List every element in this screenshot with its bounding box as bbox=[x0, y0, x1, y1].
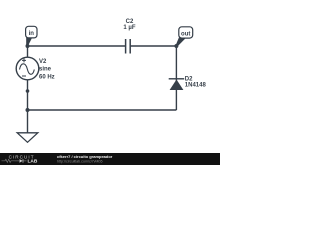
svg-text:60 Hz: 60 Hz bbox=[39, 74, 55, 80]
svg-text:1 µF: 1 µF bbox=[123, 25, 135, 31]
svg-text:out: out bbox=[181, 31, 190, 37]
wire ground stub bbox=[27, 110, 29, 133]
node V2 bottom terminal dot bbox=[26, 89, 30, 93]
label sine bbox=[39, 67, 52, 73]
label C2 bbox=[126, 19, 134, 25]
node ground junction dot bbox=[26, 108, 30, 112]
label D2 bbox=[185, 77, 193, 83]
port flag in bbox=[26, 26, 37, 46]
label 1 uF bbox=[123, 25, 135, 31]
ground bbox=[17, 133, 38, 143]
capacitor C2 bbox=[126, 39, 131, 54]
label 1N4148 bbox=[185, 83, 207, 89]
svg-text:in: in bbox=[29, 31, 35, 37]
wire left rail: node in down to V2 top terminal bbox=[27, 46, 29, 58]
svg-text:LAB: LAB bbox=[28, 159, 38, 165]
svg-text:V2: V2 bbox=[39, 59, 47, 65]
svg-text:sine: sine bbox=[39, 67, 52, 73]
watermark text line 1 bbox=[57, 154, 113, 159]
wire bottom: left rail to right rail bbox=[28, 109, 177, 111]
svg-text:1N4148: 1N4148 bbox=[185, 83, 207, 89]
wire top: node in to C2 left plate bbox=[28, 45, 126, 47]
node out junction dot bbox=[174, 44, 178, 48]
voltage source V2 (sine) bbox=[16, 57, 39, 80]
label 60 Hz bbox=[39, 74, 55, 80]
svg-text:cfkerr7 / circuito grampeador: cfkerr7 / circuito grampeador bbox=[57, 154, 113, 159]
wire right rail: node out down through D2 to bottom wire bbox=[175, 46, 177, 110]
label V2 bbox=[39, 59, 47, 65]
watermark logo CIRCUIT bbox=[2, 154, 38, 164]
watermark bar bbox=[0, 153, 220, 165]
node in junction dot bbox=[26, 44, 30, 48]
port flag out bbox=[176, 27, 193, 47]
svg-text:http://circuitlab.com/c/7vt4b5: http://circuitlab.com/c/7vt4b5 bbox=[57, 159, 103, 163]
watermark text line 2 bbox=[57, 159, 103, 163]
wire left rail: V2 bottom terminal down to bottom wire bbox=[27, 80, 29, 111]
wire top: C2 right plate to node out bbox=[131, 45, 177, 47]
diode D2 bbox=[169, 79, 185, 90]
